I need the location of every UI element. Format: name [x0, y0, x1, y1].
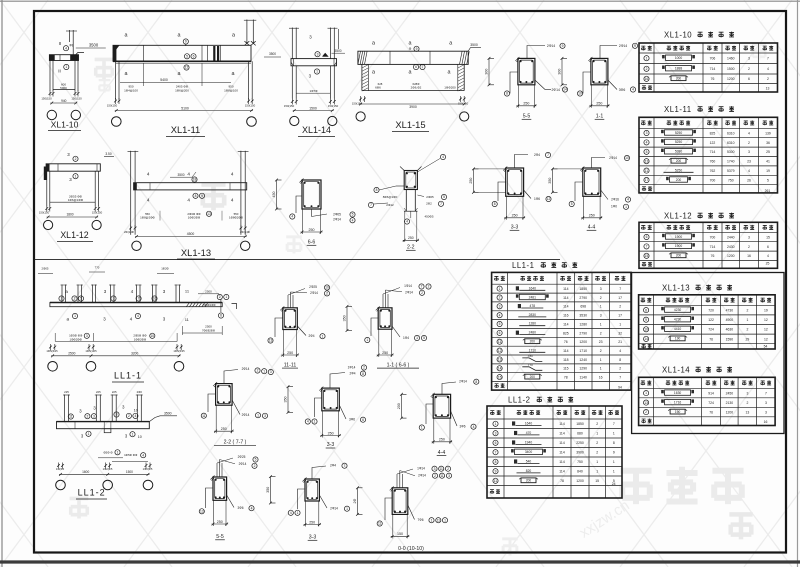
- beam XL1-15 top flange: [358, 51, 468, 64]
- svg-text:1: 1: [613, 432, 615, 436]
- section 2-2 leaders: [396, 185, 404, 187]
- beam LL1-1 top bar marks: [61, 285, 63, 303]
- beam XL1-15 web walls: [361, 64, 363, 90]
- svg-text:3900: 3900: [409, 105, 417, 109]
- svg-text:4500: 4500: [187, 232, 195, 236]
- grid bubble LL1-1 a: [48, 362, 58, 372]
- section 1-1 top: [591, 58, 608, 84]
- beam XL1-15 bottom dims: [360, 96, 362, 102]
- svg-text:5: 5: [255, 458, 257, 462]
- svg-text:25: 25: [766, 261, 770, 265]
- svg-text:1Φ(Φ5: 1Φ(Φ5: [56, 467, 65, 471]
- svg-text:3: 3: [746, 391, 748, 395]
- svg-text:2: 2: [86, 414, 88, 418]
- svg-text:5-5: 5-5: [216, 534, 224, 540]
- beam XL1-13 columns: [130, 151, 132, 235]
- svg-text:19: 19: [766, 169, 770, 173]
- svg-text:9: 9: [201, 194, 203, 198]
- svg-text:2: 2: [767, 77, 769, 81]
- svg-text:41: 41: [766, 160, 770, 164]
- svg-text:250: 250: [217, 520, 223, 524]
- svg-text:a: a: [372, 70, 375, 76]
- svg-text:5900: 5900: [60, 86, 67, 90]
- svg-text:76: 76: [709, 410, 713, 414]
- svg-text:1Φ8@100: 1Φ8@100: [224, 88, 238, 92]
- svg-text:11: 11: [498, 340, 502, 344]
- svg-text:1: 1: [619, 322, 621, 326]
- svg-text:XL1-15: XL1-15: [395, 119, 425, 130]
- svg-text:10: 10: [325, 286, 329, 290]
- svg-text:1ΦΦ2ΦΦ: 1ΦΦ2ΦΦ: [188, 215, 201, 219]
- svg-text:1Φ4@100: 1Φ4@100: [124, 88, 138, 92]
- svg-text:1Φ4: 1Φ4: [403, 336, 409, 340]
- svg-text:250: 250: [512, 214, 518, 218]
- svg-text:11: 11: [202, 414, 206, 418]
- svg-text:4: 4: [646, 141, 648, 145]
- svg-text:11-11: 11-11: [284, 362, 297, 368]
- svg-text:750: 750: [728, 178, 734, 182]
- beam XL1-12 bottom dims: [46, 206, 48, 212]
- watermark glyph top-right: [752, 45, 766, 60]
- svg-text:1200: 1200: [726, 410, 734, 414]
- svg-text:1: 1: [88, 432, 90, 436]
- svg-text:770: 770: [528, 363, 533, 367]
- svg-text:3: 3: [86, 334, 88, 338]
- svg-text:a: a: [372, 41, 375, 47]
- watermark glyph left-bottom: [70, 498, 89, 518]
- svg-text:13: 13: [200, 510, 204, 514]
- beam LL1-2 top bar marks: [64, 395, 66, 422]
- svg-text:7Φ6Φ2ΦΦ: 7Φ6Φ2ΦΦ: [202, 328, 215, 332]
- svg-text:12: 12: [498, 349, 502, 353]
- svg-text:1Φ6@1ΦΦ: 1Φ6@1ΦΦ: [68, 198, 84, 202]
- svg-text:16: 16: [747, 254, 751, 258]
- svg-text:2Φ14: 2Φ14: [552, 88, 560, 92]
- beam XL1-14 bottom dims: [291, 99, 293, 105]
- svg-text:1: 1: [444, 518, 446, 522]
- svg-text:1Φ7Φ: 1Φ7Φ: [309, 89, 318, 93]
- svg-text:a: a: [448, 70, 451, 76]
- svg-text:114: 114: [559, 441, 565, 445]
- svg-text:3: 3: [113, 297, 115, 301]
- svg-text:700: 700: [710, 235, 716, 239]
- grid bubble XL1-12 left: [44, 220, 53, 229]
- svg-text:15: 15: [766, 235, 770, 239]
- svg-text:1: 1: [600, 358, 602, 362]
- svg-text:XL1-14: XL1-14: [662, 366, 690, 375]
- svg-text:2Φ6,Φ2: 2Φ6,Φ2: [411, 86, 422, 90]
- svg-text:1000: 1000: [675, 56, 683, 60]
- svg-text:4: 4: [290, 511, 292, 515]
- svg-text:XL1-12: XL1-12: [664, 212, 692, 221]
- svg-text:2: 2: [219, 295, 221, 299]
- svg-text:2Φ14: 2Φ14: [405, 291, 413, 295]
- svg-text:3: 3: [317, 52, 319, 56]
- svg-text:250: 250: [439, 438, 445, 442]
- svg-text:1ΦΦ2ΦΦ: 1ΦΦ2ΦΦ: [134, 337, 147, 341]
- section 3-3 bottom: [305, 479, 319, 501]
- svg-text:7: 7: [344, 464, 346, 468]
- svg-text:7: 7: [765, 391, 767, 395]
- svg-text:1280: 1280: [579, 322, 587, 326]
- svg-text:5: 5: [352, 213, 354, 217]
- svg-text:1: 1: [316, 70, 318, 74]
- svg-text:3-3: 3-3: [309, 535, 317, 541]
- svg-text:XL1-13: XL1-13: [181, 247, 211, 258]
- svg-text:4: 4: [231, 198, 234, 203]
- svg-text:8: 8: [475, 380, 477, 384]
- svg-text:3500: 3500: [334, 49, 341, 53]
- svg-text:2Φ25: 2Φ25: [238, 455, 246, 459]
- svg-text:122: 122: [710, 141, 716, 145]
- svg-text:3: 3: [646, 131, 648, 135]
- section 11-11: [283, 308, 298, 330]
- svg-text:3: 3: [765, 410, 767, 414]
- svg-text:5400: 5400: [160, 78, 168, 82]
- watermark bottom-right logo: [620, 471, 651, 504]
- svg-text:114: 114: [559, 422, 565, 426]
- svg-text:3Φ6: 3Φ6: [459, 425, 465, 429]
- svg-text:11: 11: [645, 169, 649, 173]
- svg-text:17: 17: [618, 296, 622, 300]
- svg-text:4: 4: [187, 172, 190, 177]
- svg-text:11: 11: [378, 522, 382, 526]
- svg-text:76: 76: [564, 340, 568, 344]
- svg-text:13: 13: [766, 87, 770, 91]
- svg-text:3: 3: [600, 314, 602, 318]
- svg-text:6: 6: [646, 235, 648, 239]
- svg-text:724: 724: [708, 328, 714, 332]
- svg-text:36: 36: [766, 141, 770, 145]
- svg-text:1240: 1240: [579, 358, 587, 362]
- svg-text:3-3: 3-3: [511, 225, 519, 231]
- svg-text:2Φ4: 2Φ4: [330, 464, 336, 468]
- svg-text:250: 250: [309, 228, 315, 232]
- svg-text:6310: 6310: [727, 131, 735, 135]
- svg-text:16: 16: [645, 77, 649, 81]
- svg-text:1200: 1200: [727, 77, 735, 81]
- svg-text:6Φ6: 6Φ6: [375, 86, 381, 90]
- svg-text:540: 540: [526, 459, 532, 463]
- svg-text:4: 4: [748, 131, 750, 135]
- svg-text:470: 470: [526, 431, 532, 435]
- svg-text:4: 4: [147, 172, 150, 177]
- svg-text:1: 1: [366, 338, 368, 342]
- svg-text:1: 1: [596, 470, 598, 474]
- svg-text:8: 8: [376, 188, 378, 192]
- svg-text:3400: 3400: [525, 450, 533, 454]
- svg-text:150(150: 150(150: [245, 104, 256, 108]
- svg-text:2: 2: [61, 297, 63, 301]
- svg-text:3Φ6: 3Φ6: [619, 88, 626, 92]
- svg-text:261: 261: [765, 189, 771, 193]
- svg-text:23: 23: [599, 340, 603, 344]
- svg-text:5: 5: [443, 195, 445, 199]
- svg-text:a: a: [67, 317, 70, 322]
- svg-text:5100: 5100: [181, 106, 189, 110]
- svg-text:450Φ5: 450Φ5: [424, 215, 433, 219]
- svg-text:3: 3: [495, 431, 497, 435]
- grid bubble XL1-14 left: [290, 116, 299, 125]
- svg-text:11: 11: [494, 479, 498, 483]
- svg-text:8Φ6@1Φ0: 8Φ6@1Φ0: [383, 195, 398, 199]
- svg-text:1140: 1140: [580, 376, 587, 380]
- svg-text:LL1-1: LL1-1: [512, 261, 534, 270]
- svg-text:6: 6: [767, 245, 769, 249]
- dim between 5-5 and 3-3b: [270, 477, 272, 503]
- divider line: [34, 259, 560, 261]
- svg-text:9: 9: [495, 469, 497, 473]
- svg-text:2: 2: [596, 451, 598, 455]
- svg-text:1ΦΦ2ΦΦ: 1ΦΦ2ΦΦ: [69, 337, 82, 341]
- svg-text:6310: 6310: [727, 141, 735, 145]
- svg-text:7: 7: [619, 376, 621, 380]
- section 0-0(10-10): [392, 488, 408, 515]
- svg-text:13: 13: [746, 410, 750, 414]
- svg-text:628Φ: 628Φ: [413, 82, 421, 86]
- svg-text:1: 1: [225, 295, 227, 299]
- svg-text:700: 700: [710, 178, 716, 182]
- svg-text:25: 25: [766, 150, 770, 154]
- svg-text:750: 750: [577, 460, 583, 464]
- svg-text:225: 225: [112, 390, 117, 394]
- svg-text:12: 12: [764, 318, 768, 322]
- svg-text:1: 1: [416, 336, 418, 340]
- svg-text:114: 114: [563, 349, 569, 353]
- svg-text:1: 1: [596, 460, 598, 464]
- svg-text:2500: 2500: [205, 325, 212, 329]
- svg-text:54: 54: [764, 345, 768, 349]
- svg-text:114: 114: [559, 460, 565, 464]
- svg-text:2: 2: [434, 474, 436, 478]
- dim between 11-11 and 1-1: [346, 306, 348, 330]
- svg-text:3: 3: [270, 370, 272, 374]
- svg-text:12: 12: [185, 66, 189, 70]
- svg-text:115: 115: [563, 367, 569, 371]
- svg-text:9: 9: [185, 40, 187, 44]
- svg-text:7: 7: [495, 450, 497, 454]
- section 4-4 bottom: [433, 394, 450, 418]
- svg-text:6: 6: [415, 65, 417, 69]
- svg-text:a: a: [409, 41, 412, 47]
- svg-text:II: II: [59, 41, 62, 46]
- svg-text:2: 2: [600, 349, 602, 353]
- svg-text:II: II: [58, 69, 61, 74]
- beam LL1-2 beam band: [57, 422, 150, 429]
- svg-text:1200: 1200: [576, 479, 584, 483]
- svg-text:1Φ2(Φ5: 1Φ2(Φ5: [103, 467, 113, 471]
- grid bubble LL1-1 b: [86, 362, 96, 372]
- svg-text:150(150: 150(150: [71, 97, 82, 101]
- svg-text:350: 350: [284, 397, 288, 403]
- svg-text:3-3: 3-3: [327, 442, 335, 448]
- section 4-4 middle: [583, 168, 601, 196]
- svg-text:250: 250: [221, 427, 227, 431]
- svg-text:15: 15: [498, 375, 502, 379]
- svg-text:15: 15: [595, 479, 599, 483]
- svg-text:5250: 5250: [675, 168, 683, 172]
- watermark glyph left-top: [95, 59, 114, 79]
- svg-text:13: 13: [269, 339, 273, 343]
- svg-text:1: 1: [132, 432, 134, 436]
- svg-text:10: 10: [644, 328, 648, 332]
- section 1-1(6-6): [378, 308, 392, 329]
- svg-text:825: 825: [563, 331, 569, 335]
- svg-text:5: 5: [571, 202, 573, 206]
- svg-text:8: 8: [506, 92, 508, 96]
- svg-text:4: 4: [627, 198, 629, 202]
- svg-text:6: 6: [220, 314, 222, 318]
- svg-text:2Φ12: 2Φ12: [386, 203, 394, 207]
- svg-text:2790: 2790: [579, 296, 587, 300]
- svg-text:4: 4: [307, 420, 309, 424]
- svg-text:1: 1: [625, 205, 627, 209]
- svg-text:2250: 2250: [576, 441, 584, 445]
- svg-text:Φ8: Φ8: [69, 44, 74, 48]
- svg-text:LL1-2: LL1-2: [78, 488, 106, 498]
- svg-text:3500: 3500: [269, 52, 276, 56]
- svg-text:4900: 4900: [726, 318, 734, 322]
- svg-text:8: 8: [195, 194, 197, 198]
- svg-text:714: 714: [710, 245, 716, 249]
- svg-text:2: 2: [748, 67, 750, 71]
- svg-text:9: 9: [645, 318, 647, 322]
- svg-text:225: 225: [64, 390, 69, 394]
- svg-text:200: 200: [676, 254, 682, 258]
- svg-text:14: 14: [563, 88, 567, 92]
- svg-text:714: 714: [710, 67, 716, 71]
- svg-text:26: 26: [747, 178, 751, 182]
- svg-text:8: 8: [613, 441, 615, 445]
- svg-text:680: 680: [577, 432, 583, 436]
- svg-text:13: 13: [498, 358, 502, 362]
- svg-text:250: 250: [328, 431, 334, 435]
- svg-text:3530: 3530: [579, 314, 587, 318]
- svg-text:760: 760: [710, 160, 716, 164]
- svg-text:3: 3: [264, 414, 266, 418]
- svg-text:2Φ4: 2Φ4: [534, 153, 540, 157]
- section 3-3 middle: [506, 168, 524, 196]
- svg-text:2Φ2: 2Φ2: [426, 202, 432, 206]
- svg-text:4: 4: [134, 414, 136, 418]
- svg-text:2790: 2790: [579, 331, 587, 335]
- svg-text:8: 8: [495, 460, 497, 464]
- svg-text:706: 706: [710, 57, 716, 61]
- svg-text:8: 8: [494, 202, 496, 206]
- svg-text:2Φ14: 2Φ14: [333, 217, 341, 221]
- svg-text:6-6: 6-6: [308, 240, 316, 246]
- svg-text:6: 6: [499, 331, 501, 335]
- svg-text:2500: 2500: [205, 290, 212, 294]
- svg-text:1Φ5(1Φ5: 1Φ5(1Φ5: [85, 349, 97, 353]
- svg-text:3Φ6: 3Φ6: [237, 506, 243, 510]
- svg-text:3.50: 3.50: [105, 152, 111, 156]
- svg-text:1Φ0: 1Φ0: [611, 205, 617, 209]
- svg-text:2Φ14: 2Φ14: [459, 380, 467, 384]
- svg-text:2Φ14: 2Φ14: [547, 44, 555, 48]
- svg-text:250: 250: [309, 520, 315, 524]
- svg-text:1: 1: [314, 420, 316, 424]
- svg-text:2130: 2130: [726, 401, 734, 405]
- svg-text:780: 780: [528, 354, 533, 358]
- beam XL1-14 left elevation leader: [264, 56, 281, 58]
- svg-text:2: 2: [75, 157, 77, 161]
- svg-text:1Φ5(Φ25: 1Φ5(Φ25: [46, 349, 58, 353]
- svg-text:2Φ14: 2Φ14: [330, 507, 338, 511]
- svg-text:7: 7: [767, 57, 769, 61]
- watermark glyph mid-right: [286, 237, 302, 254]
- svg-text:a: a: [125, 33, 128, 39]
- svg-text:7Φ6Φ1ΦΦ: 7Φ6Φ1ΦΦ: [202, 303, 215, 307]
- svg-text:1888: 1888: [675, 67, 683, 71]
- svg-text:114: 114: [563, 305, 569, 309]
- svg-text:118: 118: [563, 358, 569, 362]
- svg-text:4: 4: [767, 67, 769, 71]
- svg-text:7: 7: [370, 203, 372, 207]
- svg-text:4: 4: [619, 349, 621, 353]
- svg-text:2440: 2440: [727, 235, 735, 239]
- svg-text:2: 2: [74, 297, 76, 301]
- svg-text:23: 23: [747, 160, 751, 164]
- beam LL1-1 right overhang: [198, 293, 219, 295]
- svg-text:a: a: [125, 71, 128, 77]
- section 6-6: [302, 180, 321, 209]
- svg-text:XL1-14: XL1-14: [302, 125, 331, 135]
- svg-text:139: 139: [765, 131, 771, 135]
- beam XL1-14 columns: [291, 66, 293, 99]
- beam XL1-11 bottom dims: [115, 98, 117, 104]
- svg-text:150(150: 150(150: [284, 104, 295, 108]
- grid bubble XL1-12 right: [92, 220, 101, 229]
- svg-text:5250: 5250: [675, 131, 683, 135]
- svg-text:1Φ6: 1Φ6: [534, 197, 540, 201]
- svg-text:18: 18: [193, 178, 197, 182]
- svg-text:2Φ14: 2Φ14: [418, 474, 426, 478]
- svg-text:698: 698: [580, 305, 586, 309]
- svg-text:1: 1: [75, 174, 77, 178]
- svg-text:940: 940: [61, 99, 67, 103]
- svg-text:2Φ: 2Φ: [353, 499, 357, 504]
- svg-text:628: 628: [378, 82, 383, 86]
- svg-text:17: 17: [645, 178, 649, 182]
- svg-text:2Φ14: 2Φ14: [310, 291, 318, 295]
- svg-text:1900: 1900: [675, 235, 683, 239]
- svg-text:478: 478: [530, 304, 536, 308]
- grid bubble LL1-2 b: [103, 480, 113, 490]
- svg-text:1Φ8@2ΦΦ: 1Φ8@2ΦΦ: [140, 215, 155, 219]
- svg-text:914: 914: [708, 391, 714, 395]
- svg-text:1: 1: [613, 470, 615, 474]
- svg-text:2Φ14: 2Φ14: [242, 367, 250, 371]
- svg-text:1800: 1800: [66, 213, 73, 217]
- svg-text:14: 14: [498, 367, 502, 371]
- svg-text:114: 114: [559, 432, 565, 436]
- svg-text:114: 114: [563, 287, 569, 291]
- svg-text:a: a: [409, 70, 412, 76]
- svg-text:1: 1: [645, 391, 647, 395]
- svg-text:2: 2: [428, 285, 430, 289]
- dim between 2-2 and 3-3: [287, 387, 289, 413]
- svg-text:9: 9: [634, 44, 636, 48]
- svg-text:1: 1: [600, 322, 602, 326]
- svg-text:3900: 3900: [576, 451, 584, 455]
- svg-text:5: 5: [423, 336, 425, 340]
- svg-text:150: 150: [397, 532, 403, 536]
- beam XL1-12 flange: [46, 164, 100, 171]
- svg-text:2: 2: [447, 467, 449, 471]
- svg-text:4: 4: [767, 254, 769, 258]
- svg-text:250: 250: [287, 351, 293, 355]
